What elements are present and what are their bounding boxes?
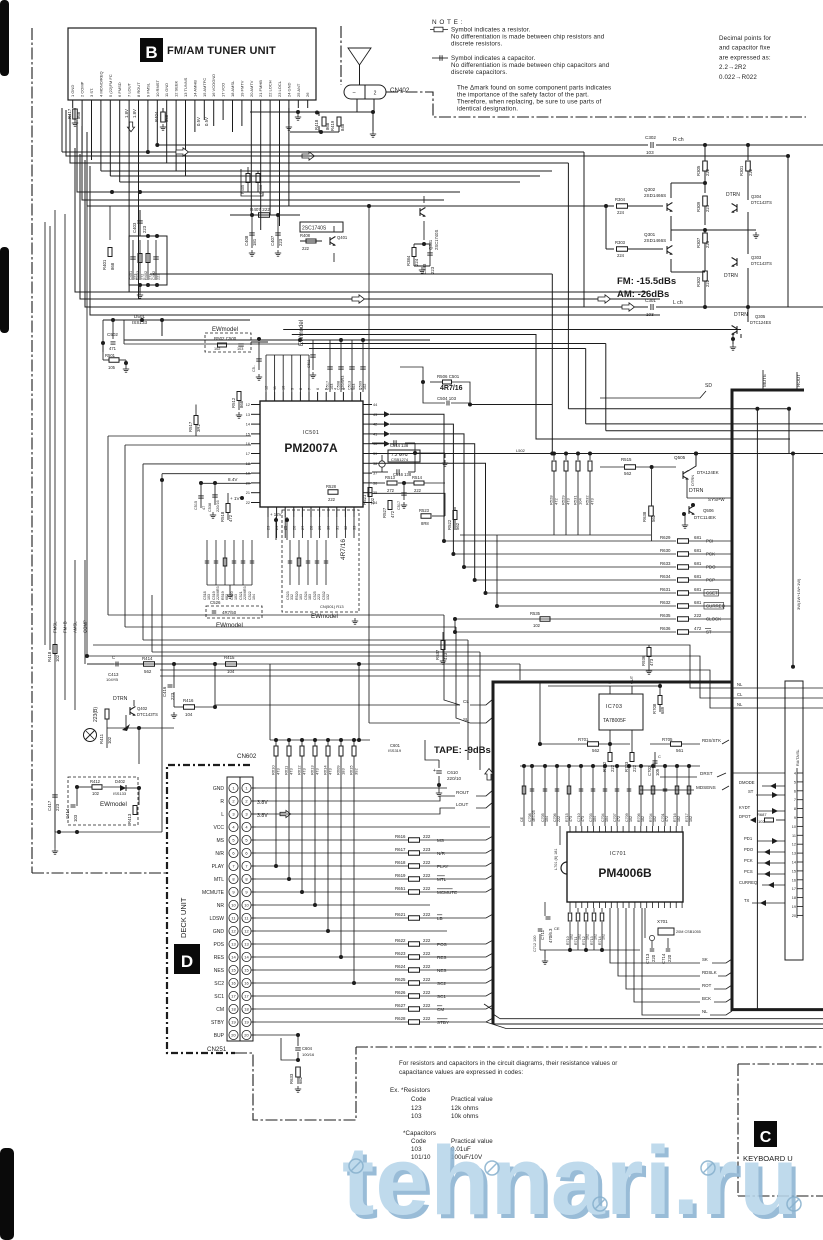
svg-text:EWmodel: EWmodel	[311, 613, 338, 620]
capacitor C711	[544, 902, 546, 916]
wire bus y163	[70, 114, 568, 163]
svg-text:EWmodel: EWmodel	[216, 622, 243, 629]
keyboard pin 16	[797, 879, 803, 881]
svg-text:Q302: Q302	[644, 187, 656, 192]
wire from ic top to 4R7 block	[400, 367, 423, 382]
resistor R532	[589, 454, 591, 461]
part C706	[556, 766, 558, 826]
svg-text:EWmodel: EWmodel	[100, 801, 127, 808]
resistor R713	[593, 908, 595, 912]
wire ic703 top rail	[548, 685, 660, 687]
svg-text:PLAY: PLAY	[437, 864, 448, 869]
svg-text:21: 21	[246, 491, 250, 495]
svg-text:VCC: VCC	[213, 825, 224, 831]
wire bus y656b	[87, 656, 823, 698]
svg-text:2SC1740S: 2SC1740S	[302, 226, 327, 232]
wire x788 down right side	[787, 166, 789, 307]
svg-text:681: 681	[694, 535, 702, 540]
svg-text:BCK: BCK	[702, 996, 711, 1001]
svg-text:31: 31	[335, 526, 339, 530]
svg-text:MTL: MTL	[214, 877, 224, 883]
svg-text:22 LOCH: 22 LOCH	[268, 80, 273, 97]
IC701 bottom pins	[569, 902, 571, 908]
capacitor C713	[651, 941, 653, 948]
wire bus y171	[101, 170, 552, 172]
svg-text:222: 222	[423, 938, 431, 943]
hollow arrow right on y152 no1	[176, 148, 189, 156]
svg-text:7 LOUT: 7 LOUT	[127, 82, 132, 97]
svg-text:47: 47	[202, 506, 206, 510]
svg-text:28: 28	[310, 526, 314, 530]
svg-text:R304: R304	[615, 197, 626, 202]
svg-text:13: 13	[231, 942, 236, 947]
svg-text:B: B	[145, 43, 157, 62]
svg-text:102: 102	[363, 384, 367, 390]
svg-text:R527: R527	[382, 507, 387, 518]
svg-text:DTRN: DTRN	[724, 273, 738, 279]
keyboard pin 6	[797, 790, 803, 792]
connector CN251 pin 7 PLAY	[229, 861, 238, 870]
svg-text:223: 223	[317, 594, 321, 600]
svg-text:R419: R419	[330, 120, 335, 131]
resistor R302	[703, 271, 708, 281]
resistor R617 line N/R	[256, 852, 408, 854]
part R402	[147, 240, 149, 280]
resistor R304	[606, 205, 614, 207]
resistor R633b	[296, 1067, 301, 1077]
connector CN251 body	[227, 777, 253, 1041]
resistor R631 line CSET	[486, 592, 677, 594]
svg-text:discrete capacitors.: discrete capacitors.	[451, 69, 507, 76]
svg-text:8: 8	[299, 388, 303, 390]
svg-text:0.022→R022: 0.022→R022	[719, 74, 757, 81]
wire RDSLK	[618, 908, 700, 976]
svg-text:Q402: Q402	[137, 706, 148, 711]
svg-text:223: 223	[142, 225, 147, 233]
wire bus y156	[66, 110, 788, 156]
svg-text:R619: R619	[395, 873, 406, 878]
resistor R514	[414, 481, 424, 485]
resistor R528	[328, 490, 338, 495]
svg-text:18: 18	[244, 1007, 249, 1012]
svg-text:11: 11	[792, 834, 796, 838]
svg-text:IC501: IC501	[303, 430, 319, 436]
svg-text:R506 C501: R506 C501	[437, 374, 460, 379]
deck unit dash border	[167, 765, 250, 1053]
wire vertical x552 to y453	[551, 274, 553, 454]
resistor R531	[577, 454, 579, 461]
part C401	[132, 240, 134, 280]
svg-text:DTRN: DTRN	[689, 488, 704, 494]
connector CN251 pin 12 GND	[229, 926, 238, 935]
svg-text:PCS: PCS	[744, 869, 753, 874]
svg-text:24 GND: 24 GND	[286, 82, 291, 97]
note capacitor symbol	[432, 57, 448, 59]
resistor R404	[162, 108, 164, 112]
svg-text:Q381: Q381	[428, 239, 433, 250]
svg-text:R528: R528	[326, 484, 337, 489]
svg-text:C508: C508	[337, 381, 341, 390]
svg-text:R626: R626	[395, 990, 406, 995]
svg-text:6: 6	[794, 789, 796, 793]
svg-text:223: 223	[705, 240, 710, 248]
resistor R418b	[53, 645, 57, 654]
IC501 left pins	[251, 404, 260, 406]
svg-text:CE: CE	[554, 926, 560, 931]
svg-text:12: 12	[231, 929, 236, 934]
resistor R623 line RES	[256, 956, 408, 958]
svg-text:R: R	[220, 799, 224, 805]
svg-text:PD1: PD1	[744, 836, 753, 841]
wire c604 branch	[281, 1038, 298, 1060]
resistor R708	[658, 696, 662, 705]
svg-text:GND: GND	[213, 929, 225, 935]
svg-text:12: 12	[265, 386, 269, 390]
svg-text:C513: C513	[348, 381, 352, 390]
wire group bottom	[138, 283, 142, 287]
resistor R384	[412, 248, 416, 257]
ground pm4006b	[544, 950, 546, 958]
wire vertical x789-793	[788, 409, 790, 454]
wire bus y627	[125, 626, 456, 628]
svg-text:222: 222	[557, 816, 561, 822]
svg-text:R403: R403	[136, 271, 140, 280]
resistor R527	[388, 501, 392, 510]
IC501 right pin arrows to ladder staircase	[384, 411, 390, 417]
svg-text:CM: CM	[216, 1007, 224, 1013]
svg-text:RDSLK: RDSLK	[702, 970, 717, 975]
hollow arrow down FMSD	[127, 122, 134, 132]
resistor R412	[92, 785, 102, 790]
svg-text:7: 7	[794, 798, 796, 802]
svg-text:222: 222	[705, 168, 710, 176]
svg-text:DPOT: DPOT	[739, 814, 751, 819]
bottom border	[356, 1046, 823, 1048]
svg-text:Practical value: Practical value	[451, 1096, 493, 1103]
svg-text:473: 473	[443, 652, 448, 660]
svg-text:17: 17	[246, 452, 250, 456]
resistor R416	[184, 705, 195, 710]
wire bus y299 with arrow	[80, 154, 660, 299]
svg-text:20: 20	[792, 914, 796, 918]
svg-text:The Δmark found on some compon: The Δmark found on some component parts …	[457, 85, 611, 92]
wire STBY to right	[455, 1024, 493, 1026]
svg-text:19: 19	[244, 1020, 249, 1025]
svg-text:PM4006B: PM4006B	[598, 866, 652, 880]
svg-text:R501: R501	[105, 353, 116, 358]
wire y535	[460, 534, 651, 536]
part R403	[139, 240, 141, 280]
part C708	[531, 766, 533, 826]
svg-text:3W(1W+1W+1W): 3W(1W+1W+1W)	[796, 578, 801, 610]
capacitor C514	[372, 442, 388, 444]
connector CN251 pin 18 CM	[229, 1004, 238, 1013]
svg-text:C403: C403	[132, 222, 137, 233]
dashed box C523 group	[282, 510, 359, 612]
svg-text:123: 123	[411, 1105, 422, 1112]
svg-text:Q301: Q301	[644, 232, 656, 237]
svg-text:ISS133: ISS133	[132, 320, 148, 325]
wire bus y307 L ch	[85, 160, 648, 307]
svg-text:R405: R405	[241, 185, 245, 194]
svg-text:R708: R708	[652, 703, 657, 714]
resistor R611	[288, 740, 290, 746]
resistor R624 line NES	[256, 969, 408, 971]
connector CN251 pin 16 SC2	[229, 978, 238, 987]
svg-text:R622: R622	[395, 938, 406, 943]
svg-text:R537: R537	[435, 649, 440, 660]
resistor R513	[372, 482, 385, 484]
svg-text:12: 12	[244, 929, 249, 934]
svg-text:Q305: Q305	[755, 314, 766, 319]
capacitor cluster above IC501	[329, 340, 331, 392]
svg-text:5 (22)FM FC: 5 (22)FM FC	[108, 74, 113, 97]
svg-text:472: 472	[228, 514, 233, 522]
svg-text:CL: CL	[737, 692, 743, 697]
svg-text:R521: R521	[362, 494, 367, 505]
svg-text:No differentiation is made bet: No differentiation is made between chip …	[451, 62, 610, 69]
wire vertical x586 to y424	[585, 349, 587, 424]
svg-text:18 AMSL: 18 AMSL	[230, 80, 235, 97]
hollow arrow row L	[280, 810, 291, 817]
svg-text:R523: R523	[419, 508, 430, 513]
main unit border left	[31, 28, 33, 873]
part C709	[628, 766, 630, 826]
capacitor C503	[258, 342, 260, 370]
svg-text:R535: R535	[530, 611, 541, 616]
svg-text:R701: R701	[578, 737, 589, 742]
resistor R415	[226, 662, 237, 667]
svg-text:16 VCOGND: 16 VCOGND	[211, 74, 216, 97]
resistor R629 line PCI	[444, 540, 676, 542]
svg-text:C5..: C5..	[252, 365, 256, 372]
svg-text:CURREQ: CURREQ	[739, 880, 758, 885]
svg-text:223(B): 223(B)	[93, 707, 99, 722]
wire ic top pin verticals	[265, 355, 267, 392]
svg-text:3R2: 3R2	[196, 424, 201, 432]
svg-text:4 MONO/REQ: 4 MONO/REQ	[98, 71, 103, 97]
svg-text:R627: R627	[395, 1003, 406, 1008]
svg-text:15 AMTFC: 15 AMTFC	[202, 78, 207, 97]
svg-text:R406: R406	[259, 185, 263, 194]
resistor R512	[237, 392, 241, 401]
label C black box	[754, 1121, 777, 1147]
svg-text:104: 104	[545, 816, 549, 822]
svg-text:SC1: SC1	[214, 994, 224, 1000]
connector CN251 pin 11 LDSW	[229, 913, 238, 922]
svg-text:223: 223	[705, 204, 710, 212]
svg-text:Decimal points for: Decimal points for	[719, 35, 771, 42]
part C402	[155, 240, 157, 280]
svg-text:681: 681	[694, 587, 702, 592]
svg-text:103: 103	[411, 1113, 422, 1120]
svg-text:103: 103	[299, 594, 303, 600]
svg-text:5: 5	[794, 780, 796, 784]
svg-text:OUT: OUT	[630, 675, 634, 684]
svg-text:are expressed as:: are expressed as:	[719, 54, 771, 61]
wire CM to right	[455, 1011, 823, 1013]
resistor R627 line CM	[256, 1008, 408, 1010]
note resistor symbol	[430, 29, 448, 31]
wire Q302 base net	[605, 206, 607, 249]
svg-text:473: 473	[649, 658, 654, 666]
svg-text:MDSENS: MDSENS	[696, 785, 716, 790]
svg-text:10: 10	[282, 386, 286, 390]
EWmodel dashed box deck	[68, 777, 138, 825]
wire x45 x50 long verticals	[44, 222, 46, 645]
part C710	[580, 766, 582, 826]
resistor R621 line LB	[256, 917, 408, 919]
resistor R610	[275, 740, 277, 746]
resistor R710	[569, 908, 571, 912]
svg-text:IC703: IC703	[606, 704, 622, 710]
svg-text:2SD1466S: 2SD1466S	[644, 238, 666, 243]
capacitor C517b	[403, 483, 405, 500]
svg-text:102: 102	[55, 654, 60, 662]
capacitor C407	[277, 215, 279, 248]
thin bottom line under PM4006B	[493, 1023, 823, 1025]
svg-text:DTA124EK: DTA124EK	[697, 470, 719, 475]
keyboard pin 18	[797, 897, 803, 899]
transistor Q304 DTC143TS	[732, 204, 737, 213]
svg-text:Q303: Q303	[751, 255, 762, 260]
keyboard pin 7	[797, 799, 803, 801]
connector CN251 pin 13 POS	[229, 939, 238, 948]
svg-text:224: 224	[617, 253, 625, 258]
svg-text:C713: C713	[645, 953, 650, 964]
wire right staircase verticals	[444, 615, 460, 705]
svg-text:3 ST.: 3 ST.	[89, 88, 94, 97]
wire ic bottom nets	[267, 517, 269, 538]
svg-text:R651: R651	[395, 886, 406, 891]
svg-text:FM: -15.5dBs: FM: -15.5dBs	[617, 276, 676, 287]
capacitor C516	[372, 471, 388, 473]
hollow arrow right on y152 no2	[302, 152, 315, 160]
svg-text:R309: R309	[696, 201, 701, 212]
wire bus y292	[75, 148, 648, 292]
svg-text:DTC114EK: DTC114EK	[694, 515, 716, 520]
svg-text:+ 12V: + 12V	[270, 512, 282, 517]
svg-text:CN251: CN251	[207, 1046, 227, 1053]
svg-text:223: 223	[278, 238, 283, 246]
wire bus y152 with arrows	[61, 108, 63, 152]
svg-text:TA78005F: TA78005F	[603, 718, 626, 724]
svg-text:C509: C509	[359, 381, 363, 390]
svg-text:RES: RES	[437, 955, 446, 960]
resistor R501	[109, 358, 119, 363]
svg-text:D: D	[181, 952, 193, 971]
svg-text:220/6R3: 220/6R3	[243, 586, 247, 600]
svg-text:19: 19	[792, 905, 796, 909]
svg-text:MS: MS	[437, 838, 444, 843]
svg-text:C414: C414	[65, 808, 70, 819]
svg-text:R513: R513	[385, 475, 396, 480]
svg-text:AM: -26dBs: AM: -26dBs	[617, 289, 669, 300]
wire SL	[369, 722, 460, 724]
svg-text:17: 17	[792, 887, 796, 891]
wire bus y424	[586, 423, 823, 425]
wire bus y145 R ch feed	[157, 144, 648, 146]
svg-text:848: 848	[340, 123, 345, 131]
svg-text:NL: NL	[737, 702, 743, 707]
svg-text:102: 102	[653, 816, 657, 822]
svg-text:C516 138: C516 138	[393, 472, 412, 477]
wire LOUT	[256, 808, 455, 814]
svg-text:8 ROUT: 8 ROUT	[136, 82, 141, 97]
IC703 pins	[609, 686, 611, 694]
wire vertical x455 clock st rows	[454, 619, 456, 632]
svg-text:C401: C401	[129, 271, 133, 280]
wire bus y408 to right	[568, 408, 789, 410]
keyboard pin 17	[797, 888, 803, 890]
svg-text:220/6R3: 220/6R3	[341, 376, 345, 390]
svg-text:KYDT: KYDT	[739, 805, 751, 810]
svg-text:0.5V: 0.5V	[196, 117, 201, 126]
resistor R633 line PDO	[464, 566, 676, 568]
svg-text:10: 10	[792, 825, 796, 829]
svg-text:222: 222	[423, 1003, 431, 1008]
dashed box C526 EWmodel	[206, 606, 262, 618]
svg-text:868: 868	[76, 111, 81, 119]
svg-text:For resistors and capacitors i: For resistors and capacitors in the circ…	[399, 1060, 617, 1067]
wire IC left pin horizontals	[108, 435, 251, 437]
svg-text:the importance of the safety f: the importance of the safety factor of t…	[457, 92, 589, 99]
wire bus y200	[82, 126, 444, 200]
svg-text:12 SEEK: 12 SEEK	[174, 80, 179, 97]
svg-text:222: 222	[328, 497, 336, 502]
svg-text:102: 102	[92, 791, 100, 796]
svg-text:44: 44	[373, 403, 377, 407]
svg-text:R305: R305	[696, 165, 701, 176]
wire 430 740 region	[425, 740, 439, 760]
svg-text:R522: R522	[447, 519, 452, 530]
svg-text:NES: NES	[214, 968, 225, 974]
svg-text:13: 13	[244, 942, 249, 947]
svg-text:10: 10	[244, 903, 249, 908]
connector CN251 pin 5 MS	[229, 835, 238, 844]
svg-text:NL: NL	[702, 1009, 708, 1014]
svg-text:8R8: 8R8	[421, 521, 429, 526]
svg-text:DTC143TS: DTC143TS	[751, 261, 772, 266]
capacitor C403	[139, 210, 141, 236]
resistor R626 line SC1	[256, 995, 408, 997]
svg-text:2 COMP: 2 COMP	[80, 81, 85, 97]
resistor R635 line CLOCK	[455, 618, 676, 620]
component group box C401 R403 R402 C402	[129, 236, 167, 285]
wire y656 net	[85, 654, 89, 658]
svg-text:C402: C402	[152, 271, 156, 280]
svg-text:182: 182	[641, 816, 645, 822]
part C525	[316, 540, 318, 585]
svg-text:R414: R414	[142, 656, 153, 661]
wire top rail y740	[270, 739, 370, 741]
resistor R701	[588, 742, 599, 747]
svg-text:R616: R616	[395, 834, 406, 839]
svg-text:N O T E :: N O T E :	[432, 19, 463, 26]
svg-text:C302: C302	[645, 135, 656, 140]
resistor R634 line PCP	[475, 579, 676, 581]
svg-text:562: 562	[592, 748, 600, 753]
resistor R615	[353, 740, 355, 746]
keyboard pin 19	[797, 906, 803, 908]
svg-text:20 AMTV: 20 AMTV	[249, 80, 254, 97]
svg-text:14: 14	[246, 423, 250, 427]
svg-text:472: 472	[617, 816, 621, 822]
svg-text:FM/AM TUNER UNIT: FM/AM TUNER UNIT	[167, 45, 276, 57]
resistor R418	[318, 112, 320, 116]
resistor R521	[368, 488, 372, 497]
svg-text:472: 472	[694, 626, 702, 631]
